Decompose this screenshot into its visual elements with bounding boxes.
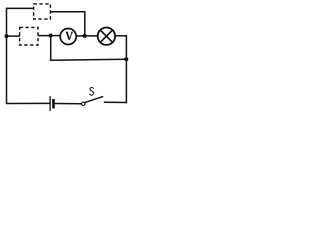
switch S bbox=[82, 96, 104, 105]
wire: left vertical rail bbox=[6, 8, 8, 104]
label S for switch bbox=[90, 87, 94, 95]
wire: right vertical rail bbox=[125, 36, 127, 103]
dashed box 1 (empty meter position, top branch) bbox=[34, 4, 51, 19]
wire: left rail junction to dashed box 2 bbox=[7, 35, 21, 37]
node: junction dot on left rail bbox=[5, 34, 9, 38]
wire: bottom wire from left rail to battery bbox=[7, 102, 50, 104]
wire: middle return wire to right rail bbox=[51, 58, 127, 61]
node: junction dot before voltmeter bbox=[49, 34, 53, 38]
wire: dashed box 2 to voltmeter bbox=[38, 35, 60, 37]
wire: top-left horizontal from left rail to dashed box 1 bbox=[7, 7, 35, 9]
wire: voltmeter to lamp bbox=[76, 35, 97, 37]
battery (cell): long thin positive plate bbox=[49, 96, 51, 111]
voltmeter V bbox=[60, 29, 76, 45]
node: junction dot on right rail at middle return wire bbox=[124, 57, 128, 61]
lamp (circle with X) bbox=[98, 28, 115, 45]
wire: dashed box 1 right side to top-right corner bbox=[51, 11, 86, 13]
wire: lamp to right rail bbox=[115, 35, 127, 37]
dashed box 2 (empty meter position, middle branch) bbox=[20, 27, 38, 45]
battery (cell): short thick negative plate bbox=[52, 99, 55, 108]
wire: switch to bottom-right corner bbox=[104, 101, 127, 103]
wire: vertical drop from top branch to voltmeter line bbox=[84, 12, 86, 36]
wire: vertical from junction down to middle return wire bbox=[50, 36, 52, 61]
node: junction dot between voltmeter and lamp bbox=[83, 34, 87, 38]
wire: battery to switch bbox=[55, 103, 82, 105]
